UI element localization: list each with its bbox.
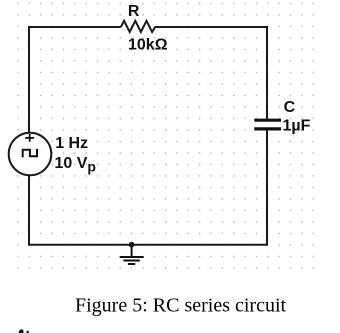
grid background (decorative) [12,0,318,273]
cut-off text fragment at bottom edge [19,329,24,333]
svg-text:10kΩ: 10kΩ [128,36,168,53]
capacitor C1 plates [254,120,281,129]
wire right (below capacitor) [266,130,268,245]
wire top (right segment) [155,26,267,28]
wire right (above capacitor) [266,26,268,119]
source V1 circle [9,133,52,176]
resistor R1 [121,21,155,32]
junction dot (ground node) [129,242,135,248]
wire top (left segment) [29,26,121,28]
svg-text:C: C [284,99,296,116]
svg-text:10 Vp: 10 Vp [55,155,96,174]
svg-text:R: R [128,3,140,20]
svg-text:Figure 5: RC series circuit: Figure 5: RC series circuit [75,295,287,317]
source V1 square-wave symbol [23,149,37,157]
ground symbol [120,245,144,264]
svg-text:1 Hz: 1 Hz [55,135,88,152]
wire bottom [28,244,267,246]
wire left (above source) [28,26,30,133]
source V1 plus sign [25,134,34,142]
wire left (below source) [28,175,30,244]
svg-text:1µF: 1µF [283,117,311,134]
